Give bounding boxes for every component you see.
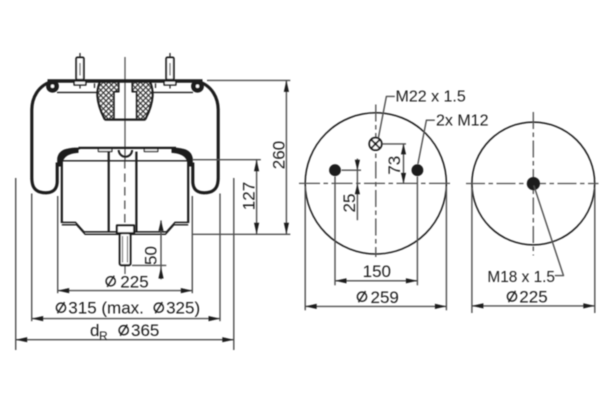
arrow 225 right: [181, 288, 193, 293]
piston dome chamfers: [68, 148, 182, 152]
dim right 225 line: [472, 305, 595, 307]
vent M22 symbol: [369, 138, 381, 150]
piston nut block: [117, 225, 134, 233]
dim 260 ext top: [207, 79, 290, 81]
label dia 259: [357, 291, 366, 302]
leader M22: [378, 96, 394, 137]
middle horizontal centerline: [299, 182, 453, 184]
svg-text:325): 325): [166, 299, 200, 318]
bead left: [46, 80, 59, 93]
piston tube left: [108, 152, 110, 232]
dim 127 line: [256, 160, 258, 235]
piston side right: [187, 162, 189, 224]
svg-text:259: 259: [371, 288, 399, 307]
label dia 315 max 325: [56, 302, 163, 313]
svg-text:127: 127: [239, 182, 258, 210]
dim 73 ext: [382, 143, 406, 145]
arrow 365 left: [16, 337, 28, 342]
arrow 73 top: [401, 144, 406, 155]
dim 259 ext left: [304, 186, 306, 310]
dim 50 ext bottom: [132, 264, 166, 266]
dim 315 ext left: [31, 194, 33, 322]
arrow 73 bottom: [401, 173, 406, 184]
dim 225 ext left: [57, 196, 59, 293]
dim 225 ext right: [191, 196, 193, 293]
arrow right 225 right: [583, 303, 595, 308]
bellow outer contour left: [32, 82, 57, 193]
stud right: [164, 53, 176, 89]
svg-text:M18 x 1.5: M18 x 1.5: [487, 269, 555, 286]
arrow 150 right: [406, 278, 418, 283]
right circle (bottom view piston): [472, 122, 595, 245]
label dia 225 right: [507, 291, 516, 302]
arrow 127 bottom: [254, 223, 259, 235]
leader 2x M12: [418, 120, 435, 164]
svg-text:2x M12: 2x M12: [436, 112, 489, 129]
dim 315 line: [32, 318, 220, 320]
middle circle (top view flange): [305, 113, 446, 254]
svg-text:50: 50: [142, 246, 161, 265]
dim right 225 ext right: [594, 188, 596, 313]
dim 150 ext right: [416, 177, 418, 286]
dim 260 line: [285, 80, 287, 234]
svg-text:365: 365: [131, 321, 159, 340]
arrow 25 top: [355, 160, 360, 171]
bellow outer contour right: [193, 82, 218, 193]
arrow 150 left: [335, 278, 347, 283]
dim 73 line: [403, 144, 405, 184]
piston bottom profile upper: [62, 222, 188, 232]
arrow 315 left: [32, 316, 44, 321]
arrow 225 left: [58, 288, 69, 293]
middle vertical centerline: [375, 105, 377, 258]
arrow 260 bottom: [284, 223, 289, 235]
piston stud thread lines: [123, 236, 128, 263]
dim 260 ext bottom: [193, 233, 290, 235]
piston flange line: [62, 160, 188, 162]
svg-text:73: 73: [385, 156, 404, 175]
svg-text:260: 260: [269, 141, 288, 169]
DIMS-LEFT: [16, 80, 291, 350]
piston bottom profile lower: [62, 225, 188, 235]
fillet wedge right: [172, 148, 193, 167]
svg-text:R: R: [99, 329, 108, 343]
plate tick right: [155, 83, 157, 88]
piston stud: [120, 233, 131, 265]
piston plate strip left: [98, 149, 112, 152]
arrow 259 right: [435, 304, 447, 309]
dim 25 line: [356, 159, 358, 221]
plate bottom line left: [57, 91, 97, 93]
dim 127 ext top: [193, 159, 261, 161]
svg-text:315 (max.: 315 (max.: [68, 299, 144, 318]
bumper outline: [97, 82, 152, 119]
piston plate strip right: [144, 149, 158, 152]
plate tick left: [94, 83, 96, 88]
bumper bottom line: [105, 119, 146, 121]
svg-text:225: 225: [120, 273, 148, 292]
dim 50 line: [160, 220, 162, 279]
bead right: [191, 80, 204, 93]
arrow 315 right: [209, 316, 221, 321]
leader M18: [534, 186, 564, 276]
svg-text:25: 25: [340, 194, 359, 213]
label dia 225 left: [106, 276, 115, 287]
arrow 365 right: [222, 337, 234, 342]
arrow 50 bottom: [158, 267, 163, 279]
dim 365 line: [16, 339, 234, 341]
dim 365 ext left: [15, 178, 17, 350]
arrow 259 left: [305, 304, 317, 309]
piston dome top: [79, 147, 177, 149]
dim 150 ext left: [334, 177, 336, 286]
right vertical centerline: [532, 112, 534, 256]
dim 365 ext right: [233, 178, 235, 350]
dim 225 line: [58, 290, 193, 292]
bumper slot: [114, 82, 137, 118]
arrow 260 top: [284, 80, 289, 92]
dim 259 ext right: [445, 186, 447, 310]
dim 259 line: [305, 305, 446, 307]
dim 25 ext: [342, 169, 362, 171]
arrow 25 bottom: [355, 184, 360, 195]
piston tube right: [135, 152, 137, 232]
svg-text:225: 225: [519, 288, 547, 307]
svg-text:150: 150: [363, 262, 391, 281]
dim 150 line: [335, 280, 417, 282]
right horizontal centerline: [466, 183, 599, 185]
dim right 225 ext left: [471, 188, 473, 313]
stud left: [74, 53, 86, 89]
dim 315 ext right: [219, 194, 221, 322]
bolt hole M12 left: [329, 164, 341, 176]
arrow 127 top: [254, 160, 259, 172]
top plate band: [48, 79, 203, 82]
svg-text:M22 x 1.5: M22 x 1.5: [396, 89, 466, 106]
piston side left: [61, 162, 63, 224]
center stud M18 dot: [527, 177, 540, 190]
bolt hole M12 right: [412, 164, 424, 176]
plate bottom line right: [154, 91, 194, 93]
centerline left view: [124, 57, 126, 160]
piston center semicircle: [119, 150, 132, 157]
arrow 50 top: [158, 220, 163, 231]
arrow right 225 left: [472, 303, 484, 308]
bumper crosshatch body: [97, 82, 152, 119]
fillet wedge left: [57, 148, 78, 167]
